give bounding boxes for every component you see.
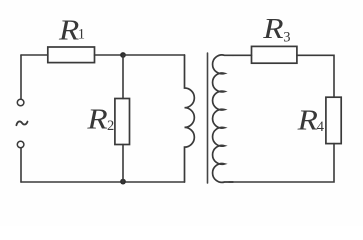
label R2	[86, 104, 114, 136]
svg-text:R: R	[297, 105, 319, 137]
transformer secondary winding L2	[213, 55, 233, 182]
svg-text:3: 3	[283, 30, 290, 46]
wire top-left to R1	[21, 54, 48, 56]
ac source terminal (bottom)	[17, 141, 24, 148]
node A (junction dot)	[120, 52, 126, 58]
svg-text:4: 4	[317, 119, 325, 135]
svg-text:2: 2	[107, 118, 114, 134]
transformer core	[207, 53, 209, 183]
right rail lower + bottom wire right circuit	[229, 144, 334, 182]
wire secondary to R3	[233, 54, 252, 56]
ac source terminal (top)	[17, 99, 24, 106]
wire node A to R2	[122, 55, 124, 99]
label R1	[58, 14, 85, 46]
svg-text:1: 1	[78, 27, 85, 43]
resistor R2	[115, 99, 130, 145]
resistor R1	[48, 47, 95, 63]
wire node A to primary top corner	[123, 54, 185, 56]
label R4	[297, 105, 325, 137]
bottom wire left circuit	[21, 181, 185, 183]
svg-text:R: R	[262, 13, 284, 45]
node B (junction dot bottom)	[120, 179, 126, 185]
resistor R4	[326, 97, 341, 143]
transformer primary winding L1	[185, 55, 195, 182]
svg-text:R: R	[86, 104, 108, 136]
left rail upper segment	[20, 55, 22, 99]
label R3	[262, 13, 290, 45]
left rail lower segment	[20, 148, 22, 182]
wire R1 to node A	[95, 54, 124, 56]
wire R3 to right rail	[297, 55, 334, 97]
ac source tilde	[16, 121, 27, 125]
resistor R3	[252, 46, 297, 63]
svg-text:R: R	[58, 14, 80, 46]
wire R2 to node B	[122, 145, 124, 183]
